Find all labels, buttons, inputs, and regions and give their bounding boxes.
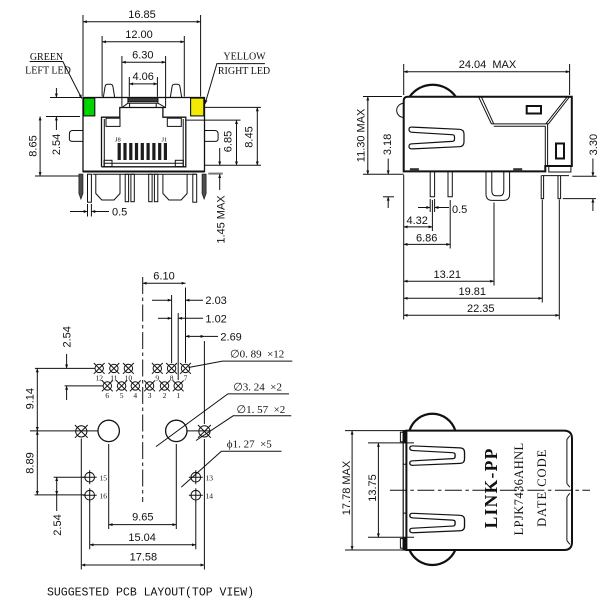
center thin legs (125, 174, 158, 202)
hole pin 8 (166, 363, 177, 374)
svg-text:LEFT LED: LEFT LED (25, 66, 71, 77)
side pin 3 (541, 176, 543, 199)
hole pin 9 (152, 363, 163, 374)
svg-text:6.85: 6.85 (223, 131, 235, 152)
side view body outline (404, 97, 572, 172)
dim 12.00 extension lines (102, 36, 184, 97)
svg-text:0.5: 0.5 (452, 204, 467, 216)
svg-text:24.04 MAX: 24.04 MAX (459, 59, 517, 71)
side pin 1 (430, 172, 434, 197)
big mounting hole right 3.24 (166, 420, 187, 441)
dim 24.04 MAX (404, 71, 570, 73)
svg-text:14: 14 (206, 492, 214, 501)
dim 8.45 (256, 107, 258, 165)
big mounting hole left 3.24 (98, 420, 119, 441)
dim 8.45 extension lines (205, 107, 261, 165)
hole pin 7 (180, 363, 191, 374)
svg-text:22.35: 22.35 (467, 303, 495, 315)
snap post slot (492, 172, 504, 196)
dim 15.04 (90, 502, 196, 550)
dim 2.54 left extension lines (46, 98, 82, 117)
svg-text:4: 4 (133, 391, 137, 400)
center snap post (486, 172, 510, 201)
right shield ground leg (202, 174, 206, 199)
svg-text:3.18: 3.18 (382, 134, 394, 155)
dim 2.69 (203, 341, 205, 424)
hole pin 14 1.27 (189, 488, 203, 502)
svg-text:SUGGESTED PCB LAYOUT(TOP VIEW): SUGGESTED PCB LAYOUT(TOP VIEW) (47, 587, 254, 600)
dim 8.89 (35, 477, 86, 495)
svg-text:2.03: 2.03 (205, 295, 226, 307)
dim 9.14 (30, 430, 210, 432)
dim 0.5 (70, 211, 88, 213)
dim 2.54 left (55, 88, 57, 98)
dim 4.06 (129, 83, 157, 85)
hole pin 16 1.27 (83, 488, 97, 502)
left side tab (69, 131, 83, 142)
green left LED (84, 98, 95, 116)
dim 6.86 (404, 243, 451, 245)
dim 9.65 (109, 444, 177, 529)
hole 1.57 (198, 425, 211, 438)
svg-text:8.45: 8.45 (244, 126, 256, 147)
dim 4.06 extension lines (129, 77, 157, 97)
svg-text:J1: J1 (162, 137, 168, 144)
svg-text:7: 7 (184, 374, 188, 383)
svg-text:YELLOW: YELLOW (223, 52, 266, 63)
dim 11.30 MAX (367, 97, 369, 175)
svg-text:8.65: 8.65 (27, 135, 39, 156)
dim 12.00 (102, 41, 184, 43)
flange outer tab top (400, 432, 403, 442)
dim 17.78 MAX (351, 431, 353, 550)
hole pin 15 1.27 (83, 470, 97, 484)
left shield ground leg (79, 174, 83, 199)
svg-text:1.02: 1.02 (205, 313, 226, 325)
right thin leg (193, 174, 197, 202)
svg-text:RIGHT LED: RIGHT LED (218, 66, 270, 77)
yellow right LED (191, 98, 204, 116)
top view centerline (390, 489, 590, 491)
dim 17.78 MAX extension lines (345, 431, 403, 550)
top latch arc (410, 414, 456, 431)
right foot notch (175, 160, 183, 166)
hole pin 11 (109, 363, 120, 374)
contact pin comb (118, 143, 167, 160)
svg-text:9.14: 9.14 (25, 388, 37, 409)
svg-text:9: 9 (155, 374, 159, 383)
dim 6.85 (236, 120, 238, 165)
left thin 0.5 leg (88, 174, 92, 202)
jack cavity inner walls (104, 119, 183, 167)
dim 19.81 (404, 297, 543, 299)
svg-text:16.85: 16.85 (128, 9, 156, 21)
svg-text:16: 16 (100, 492, 108, 501)
svg-text:2.54: 2.54 (61, 326, 73, 347)
bottom tab left (410, 168, 419, 171)
rear inner wall (567, 436, 570, 545)
svg-text:12.00: 12.00 (125, 29, 153, 41)
svg-text:17.58: 17.58 (130, 552, 158, 564)
dim 1.45 MAX (219, 148, 221, 165)
left top ear tab (103, 84, 114, 97)
dim 6.30 (122, 61, 166, 63)
side EMI fork (409, 127, 464, 149)
left foot notch (104, 160, 112, 166)
svg-text:11.30 MAX: 11.30 MAX (355, 108, 367, 162)
front flange strip (403, 431, 406, 550)
right top ear tab (170, 84, 181, 97)
svg-text:6.30: 6.30 (132, 49, 153, 61)
svg-text:4.06: 4.06 (132, 71, 153, 83)
svg-text:19.81: 19.81 (459, 286, 487, 298)
flange tick marks (403, 464, 406, 513)
latch block flare (122, 98, 166, 108)
top view fork upper (410, 446, 465, 465)
svg-text:DATE CODE: DATE CODE (535, 449, 549, 527)
back step box (549, 166, 571, 172)
svg-text:2.54: 2.54 (52, 514, 64, 535)
dim 0.5 extension lines (88, 204, 92, 217)
top view fork lower (410, 513, 465, 532)
right plastic post (163, 174, 187, 200)
svg-text:2.69: 2.69 (220, 331, 241, 343)
svg-text:8.89: 8.89 (25, 452, 37, 473)
dim 0.5 side (430, 199, 434, 212)
svg-text:ϕ1. 27 ×5: ϕ1. 27 ×5 (227, 439, 272, 451)
vent window on slanted face (527, 106, 541, 114)
bottom latch arc (410, 550, 456, 565)
hole pin 1 (173, 381, 184, 392)
hole pin 13 1.27 (189, 470, 203, 484)
dim 6.10 (185, 288, 187, 364)
svg-text:J8: J8 (115, 137, 121, 144)
dim 2.54 top-left (66, 354, 68, 368)
hole pin 4 (130, 381, 141, 392)
dim 13.21 (404, 280, 494, 282)
rear slanted face (479, 97, 570, 127)
left latch window (106, 118, 120, 126)
dim 13.75 extension lines (368, 443, 414, 537)
side pin 4 (558, 176, 561, 199)
svg-text:∅0. 89 ×12: ∅0. 89 ×12 (230, 349, 284, 361)
svg-text:3.30: 3.30 (588, 134, 600, 155)
flange outer tab bottom (400, 539, 403, 549)
side pin 2 (448, 172, 452, 197)
svg-text:13.75: 13.75 (367, 474, 379, 502)
svg-text:1.45 MAX: 1.45 MAX (215, 195, 227, 244)
hole pin 2 (159, 381, 170, 392)
svg-text:LPJK7436AHNL: LPJK7436AHNL (512, 442, 526, 535)
svg-text:15.04: 15.04 (128, 532, 156, 544)
svg-text:5: 5 (120, 391, 124, 400)
svg-text:4.32: 4.32 (407, 215, 428, 227)
dim 4.32 (404, 226, 433, 228)
dim 13.75 (377, 443, 379, 537)
top view body outline (406, 431, 572, 550)
svg-text:3: 3 (148, 391, 152, 400)
hole pin 12 (94, 363, 105, 374)
right side tab (205, 131, 219, 142)
svg-text:∅1. 57 ×2: ∅1. 57 ×2 (237, 404, 286, 416)
dim 1.02 (177, 313, 179, 380)
svg-text:9.65: 9.65 (132, 512, 153, 524)
dim 6.85 extension line (186, 119, 241, 121)
svg-text:6.10: 6.10 (153, 271, 174, 283)
dim 11.30 MAX extension lines (363, 97, 404, 175)
hole pin 5 (116, 381, 127, 392)
dim 3.18 (387, 159, 389, 175)
hole pin 10 (123, 363, 134, 374)
jack cavity outline (102, 108, 186, 167)
svg-text:0.5: 0.5 (112, 207, 127, 219)
dim 22.35 (404, 314, 560, 316)
PCB centerline (142, 277, 144, 502)
svg-text:6: 6 (105, 391, 109, 400)
svg-text:6.86: 6.86 (416, 232, 437, 244)
dim 16.85 extension lines (83, 15, 201, 97)
dim 16.85 (83, 21, 201, 23)
dim 8.65 (39, 117, 41, 177)
dim 17.58 (81, 439, 204, 570)
svg-text:2: 2 (163, 391, 167, 400)
svg-text:15: 15 (100, 474, 108, 483)
right latch window (167, 118, 181, 126)
side latch arc (410, 85, 456, 97)
svg-text:2.54: 2.54 (51, 134, 63, 155)
side left bump (397, 103, 404, 117)
dim 3.30 (592, 159, 594, 177)
side bottom dim extension verticals (404, 175, 560, 320)
rear wall double line (545, 124, 547, 171)
dim 2.54 top-left extension lines (35, 368, 103, 386)
svg-text:13: 13 (206, 474, 214, 483)
dim 6.30 extension lines (122, 56, 166, 107)
hole 1.57 (75, 425, 88, 438)
svg-text:13.21: 13.21 (434, 269, 462, 281)
bottom tab right (513, 168, 522, 171)
svg-text:1: 1 (176, 391, 180, 400)
dim 2.03 (171, 295, 173, 363)
rear EMI contact rect (556, 144, 564, 159)
front view shield body (83, 98, 205, 172)
base flange line (93, 173, 196, 175)
hole pin 3 (144, 381, 155, 392)
dim 2.54 bottom-left (56, 477, 58, 495)
svg-text:17.78 MAX: 17.78 MAX (341, 460, 353, 515)
svg-text:∅3. 24 ×2: ∅3. 24 ×2 (233, 382, 282, 394)
left plastic post (96, 174, 120, 200)
hole pin 6 (102, 381, 113, 392)
dim 24.04 MAX extension lines (404, 64, 570, 95)
svg-text:LINK-PP: LINK-PP (481, 447, 501, 528)
shield bottom edge (83, 171, 205, 173)
pin shoulder line (541, 175, 569, 177)
latch plug slot dark band (128, 98, 158, 102)
dim 8.65 extension line (35, 175, 79, 177)
